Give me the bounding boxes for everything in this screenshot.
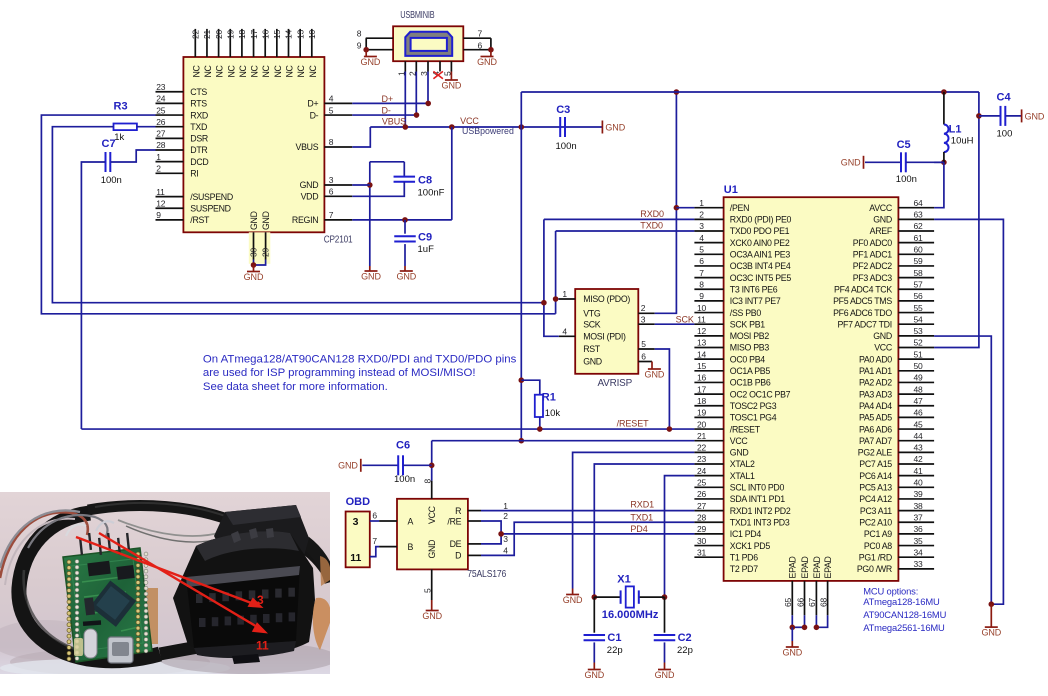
svg-text:/PEN: /PEN <box>730 203 749 213</box>
svg-text:PC4 A12: PC4 A12 <box>859 494 892 504</box>
svg-text:22: 22 <box>191 29 201 39</box>
svg-text:USBMINIB: USBMINIB <box>400 10 435 21</box>
svg-text:42: 42 <box>914 454 924 464</box>
svg-text:100: 100 <box>997 129 1013 140</box>
svg-text:SDA INT1 PD1: SDA INT1 PD1 <box>730 494 785 504</box>
svg-text:R3: R3 <box>114 101 128 113</box>
svg-text:61: 61 <box>914 233 924 243</box>
svg-text:35: 35 <box>914 536 924 546</box>
svg-text:C9: C9 <box>418 231 432 243</box>
svg-text:1k: 1k <box>114 132 124 143</box>
svg-text:VCC: VCC <box>730 436 749 446</box>
svg-text:PA6 AD6: PA6 AD6 <box>859 424 892 434</box>
svg-text:MCU options:: MCU options: <box>863 585 918 596</box>
svg-text:PC5 A13: PC5 A13 <box>859 483 892 493</box>
svg-text:C6: C6 <box>396 440 410 452</box>
svg-text:23: 23 <box>697 454 707 464</box>
svg-text:GND: GND <box>477 57 497 67</box>
svg-text:39: 39 <box>914 489 924 499</box>
svg-text:65: 65 <box>783 597 793 607</box>
svg-text:29: 29 <box>261 247 271 257</box>
svg-text:OBD: OBD <box>346 496 371 508</box>
svg-text:1: 1 <box>699 198 704 208</box>
svg-text:MOSI (PDI): MOSI (PDI) <box>583 332 626 342</box>
svg-text:C8: C8 <box>418 174 432 186</box>
svg-text:34: 34 <box>914 547 924 557</box>
svg-text:44: 44 <box>914 431 924 441</box>
svg-text:41: 41 <box>914 466 924 476</box>
svg-text:VBUS: VBUS <box>382 116 406 126</box>
svg-text:21: 21 <box>697 431 707 441</box>
svg-text:OC3B INT4 PE4: OC3B INT4 PE4 <box>730 261 791 271</box>
svg-text:3: 3 <box>329 175 334 185</box>
svg-text:PF4 ADC4 TCK: PF4 ADC4 TCK <box>834 284 892 294</box>
svg-text:RI: RI <box>190 169 198 179</box>
svg-text:4: 4 <box>503 546 508 556</box>
svg-text:12: 12 <box>697 326 707 336</box>
svg-text:100n: 100n <box>896 174 917 185</box>
svg-text:See data sheet for more inform: See data sheet for more information. <box>203 381 388 393</box>
svg-text:3: 3 <box>699 221 704 231</box>
svg-text:3: 3 <box>257 593 264 607</box>
svg-text:B: B <box>408 542 414 552</box>
svg-text:GND: GND <box>361 272 381 282</box>
svg-text:17: 17 <box>249 29 259 39</box>
svg-text:19: 19 <box>225 29 235 39</box>
svg-text:GND: GND <box>981 628 1001 638</box>
svg-text:53: 53 <box>914 326 924 336</box>
svg-text:/SUSPEND: /SUSPEND <box>190 192 233 202</box>
svg-text:6: 6 <box>641 352 646 362</box>
svg-text:GND: GND <box>730 448 749 458</box>
svg-text:67: 67 <box>807 597 817 607</box>
svg-text:8: 8 <box>699 279 704 289</box>
svg-text:SCL INT0 PD0: SCL INT0 PD0 <box>730 483 785 493</box>
svg-text:GND: GND <box>873 331 892 341</box>
svg-text:GND: GND <box>655 670 675 680</box>
svg-text:C2: C2 <box>678 632 692 644</box>
svg-text:100n: 100n <box>556 141 577 152</box>
svg-text:7: 7 <box>372 536 377 546</box>
svg-text:RST: RST <box>583 344 601 354</box>
svg-text:GND: GND <box>427 540 437 559</box>
svg-text:20: 20 <box>214 29 224 39</box>
svg-text:21: 21 <box>202 29 212 39</box>
svg-text:R: R <box>455 506 461 516</box>
svg-text:54: 54 <box>914 314 924 324</box>
svg-text:62: 62 <box>914 221 924 231</box>
svg-text:ATmega128-16MU: ATmega128-16MU <box>863 596 940 607</box>
svg-text:L1: L1 <box>949 124 962 136</box>
svg-text:37: 37 <box>914 512 924 522</box>
svg-text:11: 11 <box>156 187 165 197</box>
svg-text:MOSI PB2: MOSI PB2 <box>730 331 770 341</box>
svg-text:C3: C3 <box>556 104 570 116</box>
svg-text:10k: 10k <box>545 408 561 419</box>
svg-text:EPAD: EPAD <box>788 556 798 578</box>
svg-text:D-: D- <box>382 106 391 116</box>
svg-text:A: A <box>408 516 414 526</box>
svg-text:IC1 PD4: IC1 PD4 <box>730 529 762 539</box>
svg-text:40: 40 <box>914 478 924 488</box>
svg-text:18: 18 <box>697 396 707 406</box>
svg-text:C1: C1 <box>607 632 621 644</box>
svg-text:49: 49 <box>914 373 924 383</box>
svg-text:100nF: 100nF <box>418 188 445 199</box>
svg-text:PA7 AD7: PA7 AD7 <box>859 436 892 446</box>
svg-text:5: 5 <box>423 588 433 593</box>
svg-text:GND: GND <box>396 272 416 282</box>
svg-text:24: 24 <box>156 94 166 104</box>
svg-text:OC3A AIN1 PE3: OC3A AIN1 PE3 <box>730 250 791 260</box>
svg-text:46: 46 <box>914 408 924 418</box>
svg-text:27: 27 <box>697 501 707 511</box>
svg-text:XCK0 AIN0 PE2: XCK0 AIN0 PE2 <box>730 238 790 248</box>
svg-text:GND: GND <box>873 215 892 225</box>
svg-text:PA1 AD1: PA1 AD1 <box>859 366 892 376</box>
svg-text:5: 5 <box>329 105 334 115</box>
svg-text:PD4: PD4 <box>630 524 647 534</box>
svg-text:1: 1 <box>156 152 161 162</box>
svg-text:D+: D+ <box>307 99 318 109</box>
svg-text:PA3 AD3: PA3 AD3 <box>859 389 892 399</box>
svg-text:18: 18 <box>237 29 247 39</box>
svg-text:DCD: DCD <box>190 157 208 167</box>
svg-text:28: 28 <box>156 140 166 150</box>
svg-text:TXD1 INT3 PD3: TXD1 INT3 PD3 <box>730 517 790 527</box>
svg-text:PA4 AD4: PA4 AD4 <box>859 401 892 411</box>
svg-text:PG1 /RD: PG1 /RD <box>859 552 892 562</box>
svg-text:6: 6 <box>329 187 334 197</box>
svg-text:31: 31 <box>697 547 707 557</box>
svg-text:OC2 OC1C PB7: OC2 OC1C PB7 <box>730 389 791 399</box>
svg-text:50: 50 <box>914 361 924 371</box>
svg-text:7: 7 <box>699 268 704 278</box>
svg-text:/RE: /RE <box>447 516 461 526</box>
svg-text:48: 48 <box>914 384 924 394</box>
svg-text:25: 25 <box>156 105 166 115</box>
svg-text:3: 3 <box>353 516 359 528</box>
svg-text:GND: GND <box>583 357 602 367</box>
svg-text:U1: U1 <box>724 184 738 196</box>
svg-text:RXD0: RXD0 <box>640 209 664 219</box>
svg-text:USBpowered: USBpowered <box>462 126 514 136</box>
svg-text:8: 8 <box>423 479 433 484</box>
svg-text:GND: GND <box>841 158 861 168</box>
svg-text:C4: C4 <box>997 91 1012 103</box>
svg-text:GND: GND <box>442 81 462 91</box>
svg-text:PG0 /WR: PG0 /WR <box>857 564 892 574</box>
svg-text:3: 3 <box>641 314 646 324</box>
svg-text:1: 1 <box>503 501 508 511</box>
svg-text:IC3 INT7 PE7: IC3 INT7 PE7 <box>730 296 781 306</box>
svg-text:REGIN: REGIN <box>292 215 318 225</box>
svg-text:29: 29 <box>697 524 707 534</box>
svg-text:9: 9 <box>357 40 362 50</box>
svg-text:AT90CAN128-16MU: AT90CAN128-16MU <box>863 609 946 620</box>
svg-text:NC: NC <box>203 64 213 77</box>
svg-text:13: 13 <box>295 29 305 39</box>
svg-text:DE: DE <box>450 539 462 549</box>
svg-text:6: 6 <box>372 510 377 520</box>
svg-text:R1: R1 <box>542 392 556 404</box>
svg-text:GND: GND <box>563 595 583 605</box>
svg-text:PF6 ADC6 TDO: PF6 ADC6 TDO <box>833 308 892 318</box>
svg-text:24: 24 <box>697 466 707 476</box>
svg-text:PF5 ADC5 TMS: PF5 ADC5 TMS <box>833 296 892 306</box>
svg-text:7: 7 <box>329 210 334 220</box>
svg-text:/RST: /RST <box>190 215 210 225</box>
svg-text:SCK PB1: SCK PB1 <box>730 319 765 329</box>
svg-text:PF0 ADC0: PF0 ADC0 <box>853 238 893 248</box>
svg-text:GND: GND <box>244 272 264 282</box>
svg-text:57: 57 <box>914 279 924 289</box>
svg-text:PF2 ADC2: PF2 ADC2 <box>853 261 893 271</box>
svg-text:11: 11 <box>350 552 361 564</box>
svg-text:MISO PB3: MISO PB3 <box>730 343 770 353</box>
svg-text:VDD: VDD <box>301 192 319 202</box>
svg-text:GND: GND <box>782 648 802 658</box>
svg-text:60: 60 <box>914 245 924 255</box>
svg-text:TXD1: TXD1 <box>630 512 653 522</box>
svg-text:4: 4 <box>329 94 334 104</box>
svg-text:22: 22 <box>697 443 707 453</box>
svg-text:PC6 A14: PC6 A14 <box>859 471 892 481</box>
svg-text:9: 9 <box>156 210 161 220</box>
svg-text:30: 30 <box>249 247 259 257</box>
svg-text:SUSPEND: SUSPEND <box>190 203 230 213</box>
svg-text:26: 26 <box>697 489 707 499</box>
svg-text:VCC: VCC <box>427 505 437 524</box>
svg-text:PF7 ADC7 TDI: PF7 ADC7 TDI <box>837 319 891 329</box>
svg-text:GND: GND <box>422 611 442 621</box>
svg-text:16: 16 <box>697 373 707 383</box>
svg-text:PG2 ALE: PG2 ALE <box>858 448 893 458</box>
svg-text:AVCC: AVCC <box>869 203 893 213</box>
svg-text:TXD0 PDO PE1: TXD0 PDO PE1 <box>730 226 790 236</box>
svg-text:2: 2 <box>641 303 646 313</box>
svg-text:5: 5 <box>641 339 646 349</box>
svg-text:NC: NC <box>238 64 248 77</box>
svg-text:16: 16 <box>260 29 270 39</box>
svg-text:NC: NC <box>285 64 295 77</box>
svg-text:VTG: VTG <box>583 309 601 319</box>
svg-text:28: 28 <box>697 512 707 522</box>
svg-text:58: 58 <box>914 268 924 278</box>
svg-text:NC: NC <box>250 64 260 77</box>
svg-text:27: 27 <box>156 129 166 139</box>
svg-text:4: 4 <box>562 327 567 337</box>
svg-text:11: 11 <box>697 314 706 324</box>
svg-text:RTS: RTS <box>190 99 207 109</box>
svg-text:47: 47 <box>914 396 924 406</box>
svg-text:T3 INT6 PE6: T3 INT6 PE6 <box>730 284 778 294</box>
svg-text:25: 25 <box>697 478 707 488</box>
svg-text:NC: NC <box>191 64 201 77</box>
svg-text:15: 15 <box>697 361 707 371</box>
svg-text:51: 51 <box>914 349 924 359</box>
svg-text:64: 64 <box>914 198 924 208</box>
svg-text:VBUS: VBUS <box>296 142 319 152</box>
svg-text:PA5 AD5: PA5 AD5 <box>859 413 892 423</box>
svg-text:NC: NC <box>226 64 236 77</box>
svg-text:11: 11 <box>256 639 269 653</box>
svg-text:63: 63 <box>914 210 924 220</box>
svg-text:MISO (PDO): MISO (PDO) <box>583 294 630 304</box>
svg-text:59: 59 <box>914 256 924 266</box>
svg-text:OC1B PB6: OC1B PB6 <box>730 378 771 388</box>
svg-text:26: 26 <box>156 117 166 127</box>
svg-text:9: 9 <box>699 291 704 301</box>
svg-text:100n: 100n <box>101 175 122 186</box>
svg-text:45: 45 <box>914 419 924 429</box>
svg-text:PF3 ADC3: PF3 ADC3 <box>853 273 893 283</box>
svg-text:100n: 100n <box>394 474 415 485</box>
svg-text:PC2 A10: PC2 A10 <box>859 517 892 527</box>
svg-text:NC: NC <box>215 64 225 77</box>
svg-text:XTAL2: XTAL2 <box>730 459 755 469</box>
svg-text:36: 36 <box>914 524 924 534</box>
svg-text:RXD: RXD <box>190 110 208 120</box>
svg-text:14: 14 <box>284 29 294 39</box>
svg-text:AREF: AREF <box>870 226 893 236</box>
svg-text:13: 13 <box>697 338 707 348</box>
svg-text:NC: NC <box>261 64 271 77</box>
svg-text:OC0 PB4: OC0 PB4 <box>730 354 765 364</box>
svg-text:3: 3 <box>503 534 508 544</box>
svg-text:38: 38 <box>914 501 924 511</box>
svg-text:66: 66 <box>795 597 805 607</box>
svg-text:75ALS176: 75ALS176 <box>467 569 507 580</box>
svg-text:NC: NC <box>308 64 318 77</box>
svg-text:TOSC2 PG3: TOSC2 PG3 <box>730 401 777 411</box>
svg-text:2: 2 <box>503 511 508 521</box>
svg-text:PC3 A11: PC3 A11 <box>860 506 892 516</box>
svg-text:CP2101: CP2101 <box>324 234 353 245</box>
svg-text:16.000MHz: 16.000MHz <box>602 609 659 621</box>
svg-text:PC1 A9: PC1 A9 <box>864 529 892 539</box>
svg-text:GND: GND <box>300 180 319 190</box>
svg-text:T1 PD6: T1 PD6 <box>730 552 758 562</box>
svg-text:33: 33 <box>914 559 924 569</box>
svg-text:PF1 ADC1: PF1 ADC1 <box>853 250 893 260</box>
svg-text:6: 6 <box>699 256 704 266</box>
svg-text:C5: C5 <box>897 139 911 151</box>
svg-text:EPAD: EPAD <box>800 556 810 578</box>
svg-text:T2 PD7: T2 PD7 <box>730 564 758 574</box>
svg-text:/RESET: /RESET <box>730 424 761 434</box>
svg-text:RXD0 (PDI) PE0: RXD0 (PDI) PE0 <box>730 215 792 225</box>
svg-text:1uF: 1uF <box>418 244 435 255</box>
svg-text:10: 10 <box>307 29 317 39</box>
svg-text:6: 6 <box>478 40 483 50</box>
svg-text:43: 43 <box>914 443 924 453</box>
svg-text:10uH: 10uH <box>951 136 974 147</box>
svg-text:GND: GND <box>338 461 358 471</box>
svg-text:GND: GND <box>645 370 665 380</box>
svg-text:OC3C INT5 PE5: OC3C INT5 PE5 <box>730 273 792 283</box>
svg-text:DTR: DTR <box>190 145 207 155</box>
svg-text:EPAD: EPAD <box>812 556 822 578</box>
svg-text:22p: 22p <box>677 645 693 656</box>
svg-text:4: 4 <box>699 233 704 243</box>
svg-text:7: 7 <box>478 29 483 39</box>
svg-text:14: 14 <box>697 349 707 359</box>
svg-text:SCK: SCK <box>583 319 601 329</box>
svg-text:PA2 AD2: PA2 AD2 <box>859 378 892 388</box>
svg-text:X1: X1 <box>617 573 630 585</box>
svg-text:GND: GND <box>1025 111 1045 121</box>
svg-text:TOSC1 PG4: TOSC1 PG4 <box>730 413 777 423</box>
svg-text:D-: D- <box>310 110 319 120</box>
svg-text:D+: D+ <box>382 94 394 104</box>
svg-text:GND: GND <box>261 211 271 230</box>
svg-text:23: 23 <box>156 82 166 92</box>
svg-text:PA0 AD0: PA0 AD0 <box>859 354 892 364</box>
svg-text:17: 17 <box>697 384 707 394</box>
svg-text:GND: GND <box>584 670 604 680</box>
svg-text:55: 55 <box>914 303 924 313</box>
svg-text:/SS PB0: /SS PB0 <box>730 308 762 318</box>
svg-text:OC1A PB5: OC1A PB5 <box>730 366 771 376</box>
svg-text:GND: GND <box>605 122 625 132</box>
svg-text:CTS: CTS <box>190 87 207 97</box>
svg-text:XTAL1: XTAL1 <box>730 471 755 481</box>
svg-text:VCC: VCC <box>460 116 479 126</box>
svg-text:NC: NC <box>296 64 306 77</box>
svg-text:56: 56 <box>914 291 924 301</box>
svg-text:8: 8 <box>329 137 334 147</box>
svg-text:8: 8 <box>357 29 362 39</box>
svg-text:ATmega2561-16MU: ATmega2561-16MU <box>863 622 945 633</box>
svg-text:DSR: DSR <box>190 134 208 144</box>
svg-text:52: 52 <box>914 338 924 348</box>
svg-text:30: 30 <box>697 536 707 546</box>
svg-text:On ATmega128/AT90CAN128 RXD0/P: On ATmega128/AT90CAN128 RXD0/PDI and TXD… <box>203 353 517 365</box>
svg-text:TXD: TXD <box>190 122 207 132</box>
svg-text:D: D <box>455 551 461 561</box>
svg-text:TXD0: TXD0 <box>640 221 663 231</box>
svg-text:RXD1 INT2 PD2: RXD1 INT2 PD2 <box>730 506 791 516</box>
svg-text:5: 5 <box>699 245 704 255</box>
svg-text:AVRISP: AVRISP <box>598 378 633 389</box>
svg-text:RXD1: RXD1 <box>630 500 654 510</box>
svg-text:12: 12 <box>156 198 166 208</box>
svg-text:NC: NC <box>273 64 283 77</box>
svg-text:EPAD: EPAD <box>823 556 833 578</box>
svg-text:68: 68 <box>818 597 828 607</box>
svg-text:2: 2 <box>699 210 704 220</box>
svg-text:VCC: VCC <box>874 343 893 353</box>
svg-text:10: 10 <box>697 303 707 313</box>
svg-text:20: 20 <box>697 419 707 429</box>
svg-text:15: 15 <box>272 29 282 39</box>
svg-text:22p: 22p <box>607 645 623 656</box>
svg-text:GND: GND <box>361 57 381 67</box>
svg-text:PC7 A15: PC7 A15 <box>859 459 892 469</box>
svg-text:SCK: SCK <box>676 315 694 325</box>
svg-text:are used for ISP programming i: are used for ISP programming instead of … <box>203 367 476 379</box>
svg-text:GND: GND <box>249 211 259 230</box>
svg-text:/RESET: /RESET <box>617 418 650 428</box>
svg-text:1: 1 <box>562 289 567 299</box>
svg-text:2: 2 <box>156 164 161 174</box>
svg-text:XCK1 PD5: XCK1 PD5 <box>730 541 771 551</box>
svg-text:PC0 A8: PC0 A8 <box>864 541 892 551</box>
svg-text:C7: C7 <box>102 138 116 150</box>
svg-text:19: 19 <box>697 408 707 418</box>
